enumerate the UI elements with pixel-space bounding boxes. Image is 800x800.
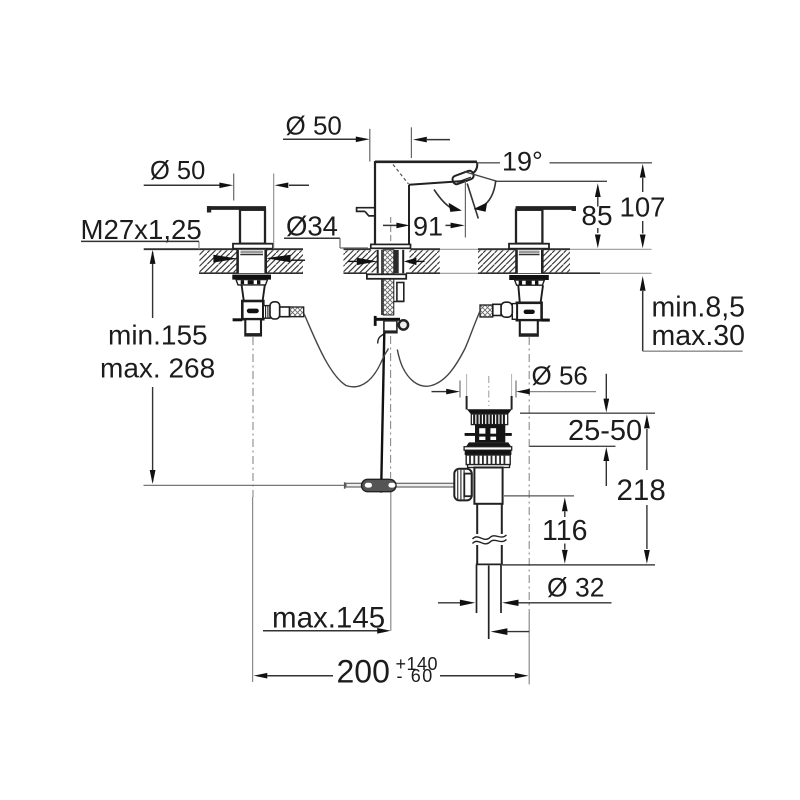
svg-text:91: 91 bbox=[413, 212, 443, 242]
svg-text:85: 85 bbox=[581, 200, 612, 231]
svg-text:max.145: max.145 bbox=[272, 601, 385, 634]
svg-text:- 60: - 60 bbox=[397, 666, 434, 686]
svg-text:max.30: max.30 bbox=[652, 320, 745, 352]
svg-text:200: 200 bbox=[337, 653, 390, 689]
svg-text:107: 107 bbox=[620, 191, 666, 222]
svg-text:Ø 50: Ø 50 bbox=[150, 157, 205, 185]
svg-text:min.155: min.155 bbox=[108, 320, 208, 351]
svg-text:25-50: 25-50 bbox=[568, 415, 642, 447]
svg-text:M27x1,25: M27x1,25 bbox=[81, 214, 202, 245]
svg-text:min.8,5: min.8,5 bbox=[652, 292, 745, 324]
svg-text:Ø34: Ø34 bbox=[286, 210, 338, 241]
svg-text:Ø 56: Ø 56 bbox=[532, 361, 588, 391]
svg-text:Ø 32: Ø 32 bbox=[547, 572, 604, 602]
svg-text:116: 116 bbox=[542, 515, 587, 547]
svg-text:max. 268: max. 268 bbox=[100, 353, 215, 384]
svg-text:19°: 19° bbox=[502, 147, 543, 177]
svg-text:Ø 50: Ø 50 bbox=[286, 111, 342, 141]
svg-text:218: 218 bbox=[617, 474, 666, 507]
